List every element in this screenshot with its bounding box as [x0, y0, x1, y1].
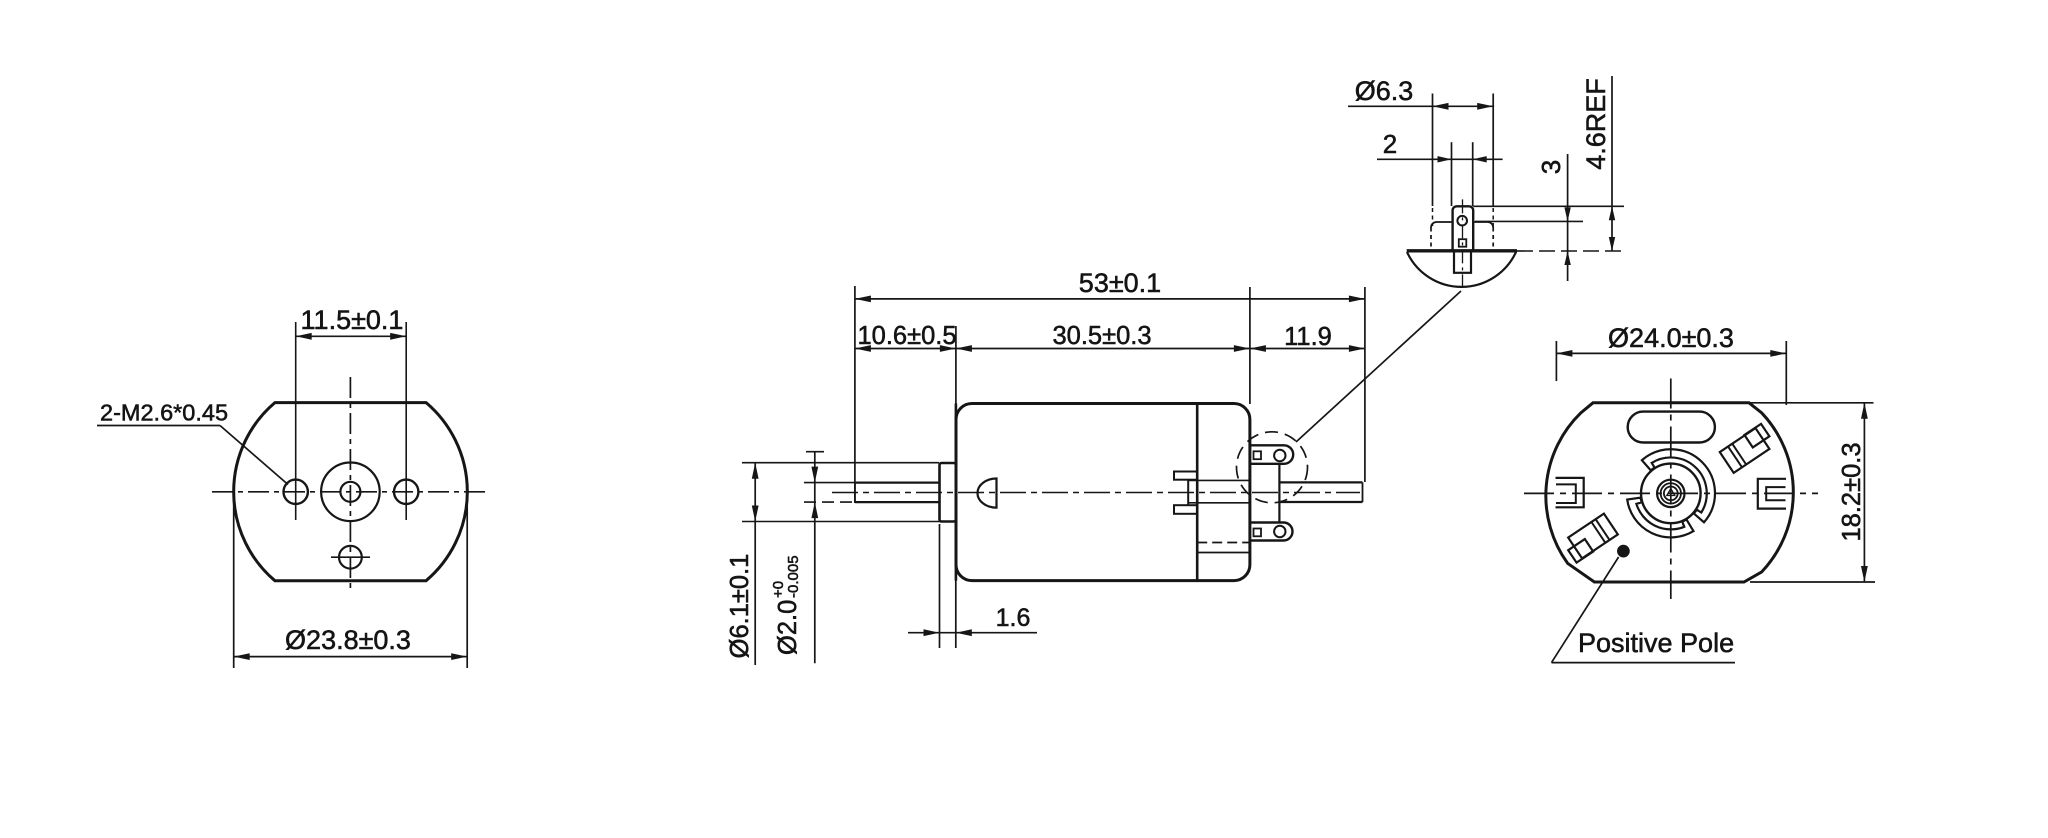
front shaft top line	[855, 482, 940, 484]
side tab right inner	[1766, 487, 1785, 500]
terminal bottom tab	[1250, 523, 1292, 541]
svg-text:1.6: 1.6	[996, 604, 1031, 632]
motor endcap outline (double-D with chamfers)	[1546, 403, 1793, 582]
center triangle mark	[1667, 489, 1675, 496]
can/endcap joint line	[1196, 404, 1199, 581]
Ø2.0 arrow down to shaft top	[811, 467, 818, 483]
Ø6.3 extension line left	[1432, 94, 1434, 207]
shaft centerline dash-dot	[832, 492, 1360, 494]
terminal LL crimp lines	[1591, 519, 1609, 543]
18.2 dimension line	[1863, 403, 1865, 582]
vertical centerline	[1670, 379, 1672, 600]
shaft circle outer	[1657, 480, 1684, 507]
positive pole leader	[1552, 557, 1619, 663]
brush arc lower	[1627, 498, 1693, 538]
terminal top tab	[1250, 445, 1293, 464]
18.2 extension line top	[1750, 402, 1874, 404]
Ø6.3 extension line right	[1492, 94, 1494, 207]
terminal top round hole	[1274, 450, 1285, 461]
boss shoulder left edge dotted	[1430, 228, 1432, 251]
svg-text:53±0.1: 53±0.1	[1079, 268, 1161, 298]
rear bearing line bottom	[1188, 502, 1250, 504]
endcap lower line solid	[1197, 552, 1250, 554]
terminal top square hole	[1254, 451, 1262, 459]
arrow left 11.5	[296, 333, 312, 340]
18.2 arrow up	[1861, 403, 1868, 419]
endcap brim line	[1407, 249, 1517, 252]
endcap dome arc	[1407, 252, 1516, 287]
2 arrow right	[1473, 156, 1487, 162]
rear shaft end	[1362, 482, 1364, 502]
bottom hole horizontal crosshair	[331, 556, 370, 558]
1.6 dimension line	[908, 632, 1037, 634]
svg-text:18.2±0.3: 18.2±0.3	[1838, 442, 1866, 541]
svg-text:-0.005: -0.005	[785, 555, 802, 598]
Ø6.3 extension right dotted continuation	[1492, 208, 1494, 226]
Ø24 dimension line	[1556, 352, 1786, 354]
rear shaft top line	[1281, 481, 1363, 483]
Ø6.1 arrow down	[752, 506, 759, 522]
front shaft bottom line	[855, 501, 940, 503]
commutator vertical bar	[1187, 480, 1189, 506]
extension line rear shaft tip	[1364, 287, 1366, 482]
Ø6.3 arrow right	[1477, 103, 1493, 110]
Ø6.3 extension left dotted continuation	[1432, 208, 1434, 226]
bearing boss circle	[1641, 464, 1701, 524]
endcap lower line dashed	[1197, 542, 1250, 544]
svg-text:Ø6.1±0.1: Ø6.1±0.1	[726, 554, 754, 659]
dimension line row2	[855, 348, 1365, 350]
rear shaft bottom line	[1281, 501, 1363, 503]
tab round hole	[1457, 216, 1467, 226]
Ø6.1 extension line top	[742, 462, 939, 464]
terminal bottom round hole	[1274, 526, 1285, 537]
extension line right Ø23.8	[466, 490, 468, 668]
svg-text:Ø23.8±0.3: Ø23.8±0.3	[285, 625, 411, 655]
1.6 arrow pointing right	[924, 629, 940, 636]
terminal UR main rect	[1720, 428, 1770, 473]
motor body rounded rectangle	[956, 404, 1250, 581]
2 dimension line	[1377, 158, 1503, 160]
vent slot stadium	[1628, 412, 1715, 443]
brush arc upper	[1642, 449, 1715, 522]
tab crimp below brim	[1454, 251, 1471, 273]
horizontal centerline	[212, 491, 489, 493]
Ø2.0 extension line top (left of tip)	[804, 482, 855, 484]
leader from detail circle to detail view	[1296, 291, 1461, 442]
4.6REF arrow down	[1609, 237, 1615, 251]
horizontal centerline	[1524, 492, 1818, 494]
extension line body left face	[955, 326, 957, 404]
1.6 extension line right	[955, 566, 957, 648]
arrow row2 at rear tip	[1349, 345, 1365, 352]
3 arrow up (below 251)	[1564, 251, 1570, 265]
commutator top tab	[1174, 472, 1197, 480]
svg-text:Ø24.0±0.3: Ø24.0±0.3	[1608, 323, 1734, 353]
left hole vertical crosshair / extension line	[295, 322, 297, 520]
mounting hole left M2.6	[284, 480, 308, 504]
Ø6.1 arrow up	[752, 463, 759, 479]
terminal tab upright	[1453, 206, 1474, 251]
svg-text:2-M2.6*0.45: 2-M2.6*0.45	[100, 400, 228, 426]
arrow row2 at shaft tip	[855, 345, 871, 352]
right hole vertical crosshair / extension line	[405, 322, 407, 520]
extension line left Ø23.8	[233, 490, 235, 668]
boss shoulder right edge dotted	[1492, 228, 1494, 251]
Ø24 extension line right	[1785, 341, 1787, 405]
half-disc vent on body	[977, 479, 996, 508]
Ø24 arrow right	[1770, 350, 1786, 357]
svg-text:Ø2.0: Ø2.0	[774, 600, 802, 655]
svg-text:Positive Pole: Positive Pole	[1578, 628, 1734, 658]
ext line hole-center level	[1475, 220, 1583, 222]
terminal UR tip square	[1744, 424, 1769, 448]
arrows row2 at body face	[940, 345, 972, 352]
Ø24 arrow left	[1556, 350, 1572, 357]
arrow 53 left	[855, 296, 871, 303]
positive pole underline	[1552, 662, 1736, 664]
Ø24 extension line left	[1555, 341, 1557, 381]
shaft circle inner	[1664, 487, 1678, 501]
terminal column	[1278, 464, 1280, 523]
1.6 extension line left	[939, 524, 941, 648]
dimension line Ø23.8	[234, 656, 468, 658]
dimension line 53	[855, 298, 1365, 300]
arrows row2 at endcap	[1234, 345, 1266, 352]
boss shoulder left	[1431, 222, 1453, 228]
Ø2.0 tolerance rotated text	[770, 555, 802, 655]
4.6REF arrow up	[1609, 206, 1615, 220]
terminal upper-right group	[1720, 424, 1776, 473]
bushing collar	[940, 463, 956, 522]
svg-text:11.5±0.1: 11.5±0.1	[301, 305, 404, 335]
svg-text:10.6±0.5: 10.6±0.5	[857, 322, 956, 350]
Ø2.0 top tick	[806, 451, 824, 453]
vertical centerline	[349, 377, 351, 588]
1.6 arrow pointing left	[956, 629, 972, 636]
Ø6.3 arrow left	[1433, 103, 1449, 110]
bottom hole	[339, 546, 362, 569]
side tab right outer	[1758, 479, 1786, 509]
2 extension line left	[1451, 142, 1453, 206]
Ø2.0 arrow up to shaft bottom	[811, 502, 818, 518]
terminal LL main rect	[1568, 514, 1618, 559]
mounting hole right M2.6	[394, 480, 418, 504]
terminal LL tip square	[1568, 539, 1593, 563]
extension line shaft tip (53/10.6)	[854, 286, 856, 503]
svg-text:30.5±0.3: 30.5±0.3	[1052, 322, 1151, 350]
Ø6.3 dimension line	[1348, 105, 1494, 107]
rear bearing line top	[1188, 479, 1250, 481]
commutator bottom tab	[1174, 505, 1197, 514]
side tab left inner	[1556, 484, 1576, 503]
arrow right Ø23.8	[451, 653, 467, 660]
Ø6.1 dimension line vertical	[754, 463, 756, 665]
4.6REF dimension line	[1611, 76, 1613, 251]
terminal lower-left group	[1562, 514, 1618, 563]
side tab left outer	[1556, 478, 1584, 507]
Ø2.0 dimension line vertical	[814, 452, 816, 664]
ext line tab-top level	[1473, 205, 1624, 207]
2 extension line right	[1472, 142, 1474, 206]
shaft tip edge	[854, 483, 856, 503]
Ø6.1 extension line bottom	[742, 521, 956, 523]
svg-text:Ø6.3: Ø6.3	[1355, 76, 1414, 106]
arrow right 11.5	[390, 333, 406, 340]
3 dimension line	[1567, 154, 1569, 281]
tab centerline	[1462, 199, 1464, 288]
extension line endcap right	[1249, 287, 1251, 404]
label underline	[97, 425, 220, 427]
svg-text:11.9: 11.9	[1284, 323, 1332, 351]
shaft circle mid	[1661, 483, 1681, 503]
svg-text:2: 2	[1383, 129, 1397, 159]
detail circle dashed	[1237, 432, 1308, 503]
motor body outline (double-D)	[234, 403, 468, 581]
center shaft hole	[340, 482, 360, 502]
positive pole dot	[1618, 546, 1629, 557]
tab square hole	[1459, 239, 1467, 247]
boss shoulder right	[1473, 222, 1493, 228]
ext brim dash right	[1517, 250, 1626, 252]
2 arrow left	[1438, 156, 1452, 162]
dimension line 11.5	[296, 335, 407, 337]
svg-text:4.6REF: 4.6REF	[1581, 78, 1611, 170]
18.2 extension line bottom	[1750, 581, 1875, 583]
bearing boss circle	[321, 463, 380, 522]
arrow 53 right	[1349, 296, 1365, 303]
terminal UR crimp lines	[1728, 444, 1746, 468]
svg-text:3: 3	[1536, 160, 1566, 174]
body left face line	[955, 404, 958, 581]
terminal bottom square hole	[1254, 529, 1262, 537]
leader to left hole	[220, 426, 288, 485]
Ø2.0 extension line bottom (left of tip, dashed)	[804, 501, 855, 503]
18.2 arrow down	[1861, 566, 1868, 582]
3 arrow down (above 221.4)	[1564, 207, 1570, 221]
arrow left Ø23.8	[234, 653, 250, 660]
